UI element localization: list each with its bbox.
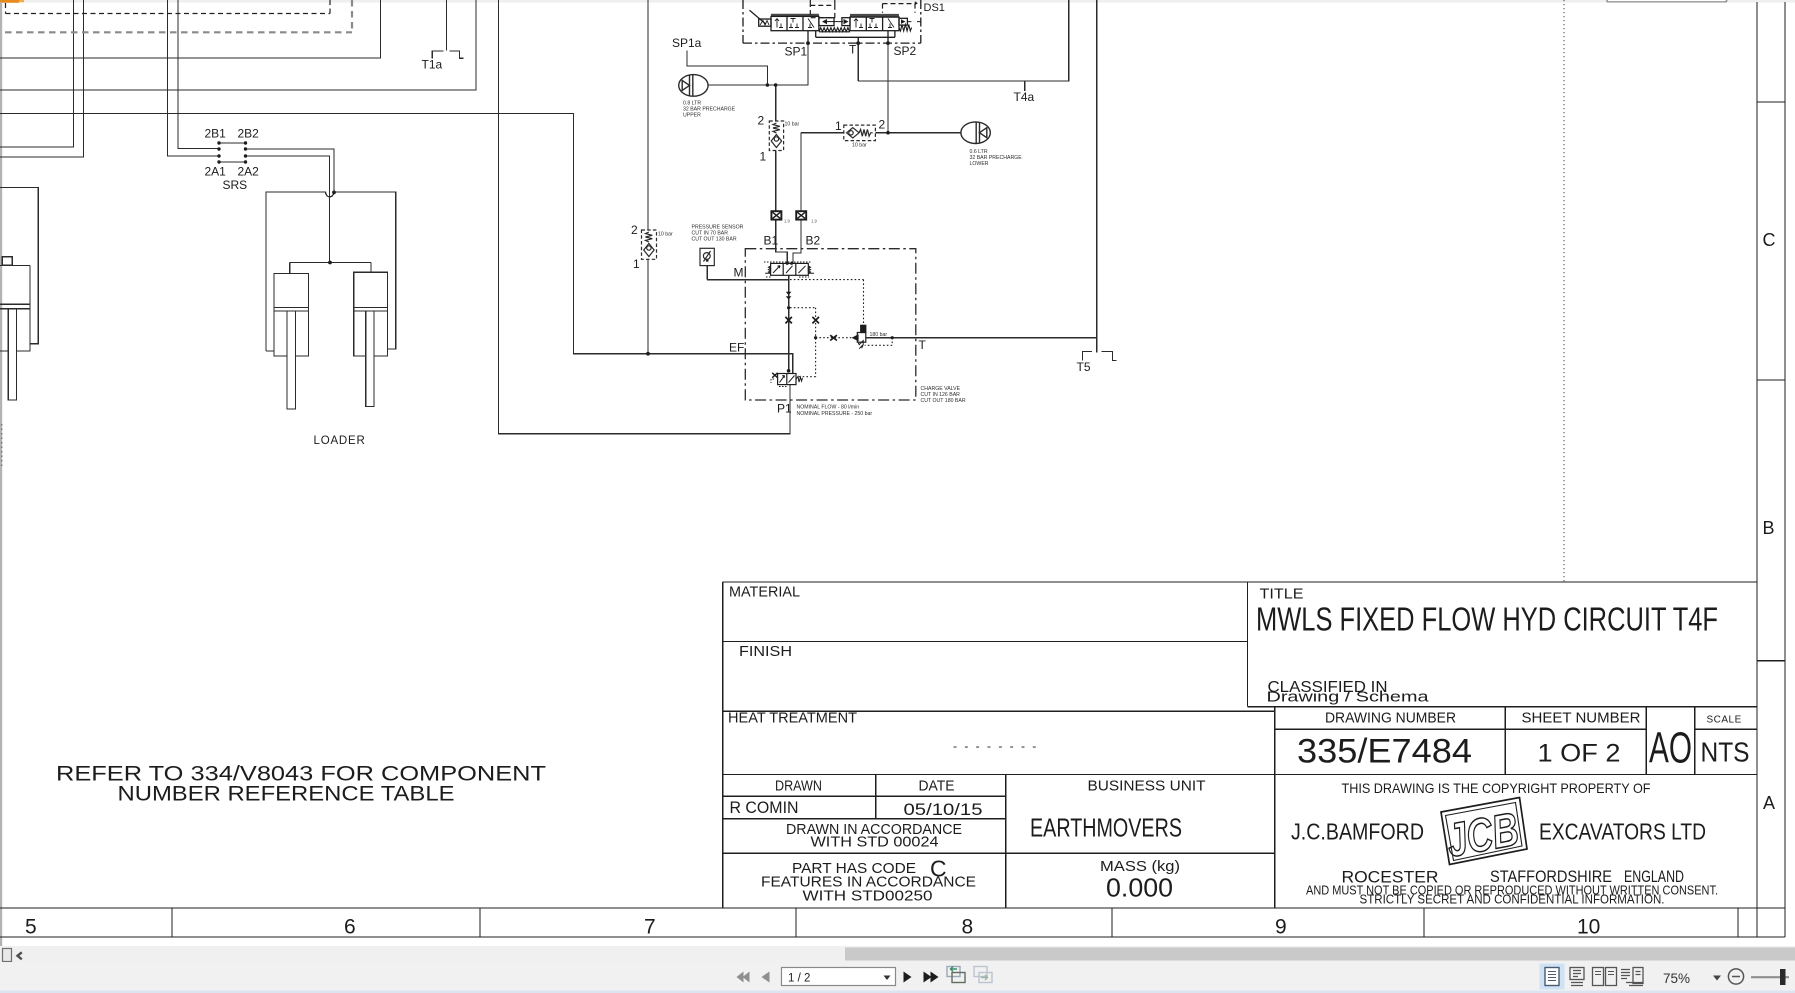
svg-text:T1a: T1a — [422, 58, 443, 72]
svg-text:05/10/15: 05/10/15 — [904, 801, 983, 819]
svg-text:WITH STD00250: WITH STD00250 — [803, 888, 933, 905]
svg-text:10 bar: 10 bar — [785, 122, 800, 128]
svg-text:LOADER: LOADER — [314, 435, 366, 447]
svg-text:SP1a: SP1a — [672, 36, 702, 50]
svg-text:5: 5 — [25, 916, 37, 939]
svg-text:1 / 2: 1 / 2 — [788, 973, 810, 985]
svg-text:LOWER: LOWER — [970, 161, 989, 167]
svg-text:DRAWING NUMBER: DRAWING NUMBER — [1325, 710, 1456, 727]
svg-text:UPPER: UPPER — [683, 113, 701, 119]
svg-text:M: M — [734, 266, 744, 280]
svg-text:NTS: NTS — [1701, 736, 1750, 767]
svg-text:MATERIAL: MATERIAL — [729, 584, 800, 601]
svg-text:EARTHMOVERS: EARTHMOVERS — [1030, 814, 1182, 842]
svg-text:9: 9 — [1275, 916, 1287, 939]
svg-text:DATE: DATE — [919, 778, 955, 795]
svg-text:2B2: 2B2 — [238, 127, 260, 141]
svg-text:J.C.BAMFORD: J.C.BAMFORD — [1291, 819, 1424, 845]
svg-text:2A2: 2A2 — [238, 165, 260, 179]
svg-text:NOMINAL FLOW - 80 l/min: NOMINAL FLOW - 80 l/min — [797, 405, 860, 411]
svg-text:R COMIN: R COMIN — [730, 799, 799, 817]
svg-text:HEAT TREATMENT: HEAT TREATMENT — [728, 710, 857, 727]
svg-text:AO: AO — [1649, 724, 1692, 773]
svg-text:1: 1 — [760, 150, 767, 164]
svg-text:B1: B1 — [764, 234, 779, 248]
svg-text:C: C — [1763, 230, 1776, 250]
svg-text:NOMINAL PRESSURE - 250 bar: NOMINAL PRESSURE - 250 bar — [797, 411, 873, 417]
svg-text:WITH STD 00024: WITH STD 00024 — [811, 834, 939, 851]
svg-text:CUT OUT 130 BAR: CUT OUT 130 BAR — [692, 237, 737, 243]
svg-text:MWLS FIXED FLOW HYD CIRCUIT T4: MWLS FIXED FLOW HYD CIRCUIT T4F — [1256, 601, 1718, 638]
svg-text:STRICTLY SECRET AND CONFIDENTI: STRICTLY SECRET AND CONFIDENTIAL INFORMA… — [1360, 893, 1665, 907]
svg-text:SP2: SP2 — [894, 44, 917, 58]
svg-text:T4a: T4a — [1014, 90, 1035, 104]
svg-text:EF: EF — [729, 341, 744, 355]
svg-text:10 bar: 10 bar — [852, 143, 867, 149]
svg-text:335/E7484: 335/E7484 — [1297, 733, 1472, 771]
svg-text:FINISH: FINISH — [739, 643, 792, 660]
svg-text:SRS: SRS — [223, 178, 248, 192]
svg-text:6: 6 — [344, 916, 356, 939]
svg-text:EXCAVATORS LTD: EXCAVATORS LTD — [1539, 819, 1706, 845]
svg-text:C: C — [930, 856, 947, 882]
svg-text:DRAWN: DRAWN — [775, 778, 822, 795]
svg-text:- - - - - - - -: - - - - - - - - — [953, 739, 1038, 753]
svg-text:10: 10 — [1577, 916, 1600, 939]
svg-text:BUSINESS UNIT: BUSINESS UNIT — [1088, 778, 1206, 795]
svg-text:A: A — [1763, 793, 1775, 813]
svg-text:1 OF 2: 1 OF 2 — [1538, 739, 1621, 767]
svg-text:1: 1 — [835, 119, 842, 133]
svg-text:T: T — [919, 338, 927, 352]
svg-text:Drawing / Schema: Drawing / Schema — [1267, 690, 1430, 706]
svg-text:7: 7 — [644, 916, 656, 939]
svg-text:P1: P1 — [777, 402, 792, 416]
svg-text:THIS DRAWING IS THE COPYRIGHT: THIS DRAWING IS THE COPYRIGHT PROPERTY O… — [1342, 780, 1651, 796]
svg-text:2A1: 2A1 — [205, 165, 227, 179]
svg-text:SCALE: SCALE — [1707, 715, 1742, 726]
svg-text:10 bar: 10 bar — [658, 232, 673, 238]
svg-text:1.9: 1.9 — [784, 219, 790, 224]
svg-text:MASS (kg): MASS (kg) — [1100, 858, 1180, 875]
svg-text:SP1: SP1 — [785, 45, 808, 59]
svg-text:B: B — [1763, 518, 1775, 538]
svg-text:T: T — [849, 43, 857, 57]
svg-text:SHEET NUMBER: SHEET NUMBER — [1522, 710, 1641, 727]
svg-text:2: 2 — [879, 118, 886, 132]
svg-text:CUT OUT 180 BAR: CUT OUT 180 BAR — [921, 398, 966, 404]
svg-text:1: 1 — [633, 257, 640, 271]
svg-text:T5: T5 — [1077, 360, 1091, 374]
svg-text:8: 8 — [962, 916, 974, 939]
svg-text:DS1: DS1 — [924, 2, 945, 14]
svg-text:2B1: 2B1 — [205, 127, 227, 141]
svg-text:75%: 75% — [1663, 971, 1690, 986]
svg-text:0.000: 0.000 — [1106, 875, 1173, 903]
svg-text:180 bar: 180 bar — [870, 332, 888, 338]
svg-text:NUMBER REFERENCE TABLE: NUMBER REFERENCE TABLE — [118, 783, 455, 806]
svg-text:1.9: 1.9 — [811, 219, 817, 224]
svg-text:2: 2 — [631, 223, 638, 237]
svg-text:B2: B2 — [806, 234, 821, 248]
svg-text:2: 2 — [758, 114, 765, 128]
